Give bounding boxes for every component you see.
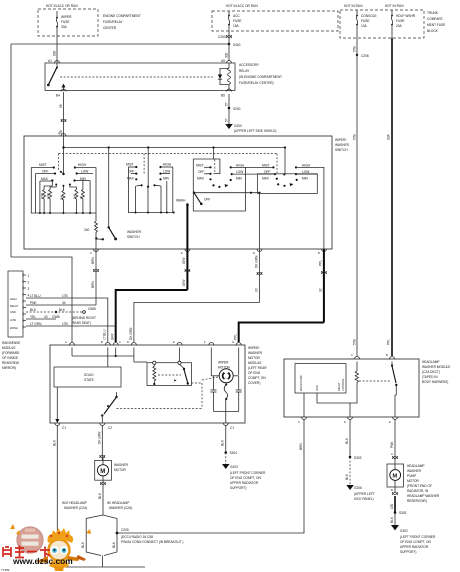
svg-text:MOTOR: MOTOR	[114, 468, 127, 472]
svg-text:PUMP: PUMP	[407, 474, 416, 478]
module dashed control	[117, 377, 219, 409]
headlamp washer pump feed	[390, 420, 398, 462]
svg-text:WIPER/: WIPER/	[335, 138, 346, 142]
svg-text:HDLP WSHR: HDLP WSHR	[396, 14, 416, 18]
svg-text:G: G	[232, 340, 234, 344]
resistor R 33K	[59, 186, 65, 213]
svg-text:HOT IN RUN: HOT IN RUN	[344, 4, 363, 8]
svg-text:FUSE: FUSE	[61, 20, 70, 24]
svg-text:P/N/A4 CONN CONNECT (IN BREAKO: P/N/A4 CONN CONNECT (IN BREAKOUT )	[121, 540, 183, 544]
cluster4 HIGH rail to exit	[295, 163, 324, 249]
svg-text:A5: A5	[221, 59, 225, 63]
svg-text:LOW: LOW	[302, 170, 309, 174]
svg-text:RAINSENSE: RAINSENSE	[2, 341, 20, 345]
headlamp module inner box	[295, 364, 346, 393]
cluster2 MIN contact	[159, 177, 169, 181]
svg-text:COMPT, ON: COMPT, ON	[248, 376, 266, 380]
svg-text:ACCESSORY: ACCESSORY	[239, 63, 260, 67]
svg-text:57: 57	[225, 102, 229, 106]
svg-text:SWITCH: SWITCH	[127, 235, 140, 239]
module relay box	[134, 361, 192, 385]
module right ground	[221, 426, 266, 491]
svg-text:LOW: LOW	[163, 170, 170, 174]
svg-text:REARVIEW: REARVIEW	[2, 361, 19, 365]
svg-text:OF ENG COMPT, ON: OF ENG COMPT, ON	[400, 540, 432, 544]
svg-text:MIST: MIST	[262, 163, 270, 167]
svg-text:30A: 30A	[61, 25, 68, 29]
svg-text:DK GRN: DK GRN	[97, 431, 101, 444]
svg-text:2: 2	[28, 281, 30, 285]
resistor 240 washer	[84, 213, 98, 238]
svg-text:G200: G200	[234, 124, 242, 128]
cluster3 MIN contact	[230, 177, 243, 181]
svg-text:HEADLAMP: HEADLAMP	[407, 464, 425, 468]
svg-text:C260: C260	[218, 35, 226, 39]
motor brush arm	[224, 383, 228, 423]
svg-text:S302: S302	[399, 511, 407, 515]
svg-text:ENGINE COMPARTMENT: ENGINE COMPARTMENT	[103, 14, 141, 18]
svg-text:BRN: BRN	[91, 281, 95, 288]
svg-text:D: D	[253, 251, 255, 255]
svg-text:MIN: MIN	[236, 177, 243, 181]
svg-text:93: 93	[254, 288, 258, 292]
cluster4 OFF rail	[264, 170, 276, 175]
svg-text:SWITCH: SWITCH	[335, 148, 348, 152]
fuse block: I/P dashed box	[212, 4, 338, 31]
wire LT BLU 17B	[26, 294, 108, 342]
svg-text:D: D	[344, 420, 346, 424]
svg-text:FUSE/RELAY CENTER): FUSE/RELAY CENTER)	[239, 81, 274, 85]
svg-text:B: B	[386, 353, 388, 357]
rainsense pin names	[10, 297, 19, 330]
svg-text:MAX: MAX	[197, 177, 205, 181]
svg-text:C: C	[119, 340, 121, 344]
cluster4 center contacts	[277, 183, 293, 187]
svg-text:BLK: BLK	[98, 492, 102, 499]
svg-text:WASHER: WASHER	[335, 143, 350, 147]
watermark chinese text	[3, 546, 50, 558]
svg-text:YEL: YEL	[30, 315, 36, 319]
wire switch to module pin D	[129, 249, 262, 342]
svg-text:MIN: MIN	[302, 177, 309, 181]
svg-text:BLK: BLK	[390, 516, 394, 523]
svg-text:C585: C585	[52, 315, 60, 319]
cluster1 left bracket	[31, 168, 96, 214]
svg-text:C: C	[90, 251, 92, 255]
svg-text:CONSOLE: CONSOLE	[361, 14, 377, 18]
svg-text:WASHER (CZA): WASHER (CZA)	[64, 506, 87, 510]
cluster3 HIGH rail	[230, 163, 274, 168]
svg-text:58: 58	[59, 104, 63, 108]
svg-text:92: 92	[318, 288, 322, 292]
svg-text:WASHER: WASHER	[127, 230, 142, 234]
svg-text:E: E	[389, 420, 391, 424]
washer rail	[194, 192, 261, 194]
svg-text:S303: S303	[354, 456, 362, 460]
svg-text:OFF: OFF	[128, 170, 134, 174]
svg-text:690: 690	[53, 50, 57, 56]
svg-text:S200: S200	[233, 107, 241, 111]
svg-text:OFF: OFF	[198, 170, 204, 174]
wire delay signal to rainsense	[91, 249, 99, 305]
washer switch arm right	[193, 192, 211, 206]
svg-text:B5: B5	[221, 94, 225, 98]
svg-text:20A: 20A	[396, 24, 403, 28]
cluster1 MIN rail	[73, 177, 90, 181]
washer rail drop to exit	[259, 193, 261, 249]
svg-text:WASHER: WASHER	[114, 463, 129, 467]
svg-text:COVER): COVER)	[248, 381, 260, 385]
svg-text:E: E	[181, 251, 183, 255]
svg-text:WASH: WASH	[10, 326, 18, 330]
svg-text:CONTROL: CONTROL	[341, 378, 345, 391]
cluster4 MIN contact	[296, 177, 309, 181]
relay coil	[228, 63, 231, 91]
svg-text:B: B	[318, 251, 320, 255]
headlamp module top pins	[351, 353, 395, 359]
cluster3 center contacts	[212, 184, 228, 188]
svg-text:www.dzsc.com: www.dzsc.com	[12, 556, 73, 566]
svg-text:FUSE: FUSE	[396, 19, 405, 23]
watermark mascot	[10, 524, 91, 571]
svg-text:PNK: PNK	[30, 301, 37, 305]
svg-text:E: E	[173, 340, 175, 344]
svg-text:MODULE: MODULE	[248, 361, 262, 365]
svg-text:GND: GND	[10, 310, 16, 314]
svg-text:3K: 3K	[79, 196, 83, 199]
svg-text:G206: G206	[354, 486, 362, 490]
washer feed below module	[97, 426, 105, 461]
svg-text:(FORWARD: (FORWARD	[2, 351, 20, 355]
svg-text:LOW: LOW	[81, 170, 88, 174]
relay clamp diode	[218, 69, 229, 85]
cluster3 lower rectangle	[193, 167, 245, 211]
cluster2 MAX contact	[127, 177, 137, 181]
svg-text:10K: 10K	[72, 194, 76, 199]
svg-text:SOLID: SOLID	[84, 373, 94, 377]
svg-text:OF INSIDE: OF INSIDE	[2, 356, 18, 360]
relay pin A5	[221, 59, 232, 63]
switch box exit pins	[58, 132, 326, 256]
resistor R 100K	[46, 185, 56, 213]
svg-text:BLK: BLK	[30, 308, 37, 312]
headlamp relay switch	[391, 362, 398, 418]
wire fuse to relay A1	[53, 36, 58, 63]
svg-text:RESERVOIR): RESERVOIR)	[407, 499, 427, 503]
rainsense pin stubs	[23, 273, 30, 329]
svg-text:S400: S400	[233, 43, 241, 47]
ladder bottom rail dots	[39, 212, 91, 214]
motor left branch with capacitor	[211, 360, 220, 412]
wire washer feed to module	[111, 249, 190, 342]
svg-text:G203: G203	[230, 465, 238, 469]
svg-text:DK GRN: DK GRN	[254, 255, 258, 268]
svg-text:C2: C2	[108, 426, 112, 430]
svg-text:RELAY: RELAY	[239, 69, 250, 73]
solid state box	[54, 367, 121, 387]
svg-text:BLK: BLK	[59, 308, 66, 312]
module relay coil	[153, 364, 156, 385]
svg-text:SUPPORT): SUPPORT)	[400, 550, 416, 554]
svg-text:FUSE: FUSE	[233, 19, 242, 23]
svg-text:300: 300	[225, 52, 229, 58]
headlamp washer pump motor	[387, 461, 440, 503]
cluster2 MIST rail	[126, 163, 137, 169]
svg-text:MOTOR: MOTOR	[407, 479, 420, 483]
svg-text:MODULE: MODULE	[2, 346, 16, 350]
svg-text:77459: 77459	[1, 568, 10, 572]
svg-text:HOT IN ACC OR RUN: HOT IN ACC OR RUN	[226, 4, 258, 8]
wiper/washer switch box	[24, 136, 350, 249]
ground run from solid state	[52, 426, 145, 568]
cluster2 risers and bottom rail	[128, 167, 174, 214]
washer motor ground split	[62, 482, 132, 567]
relay switch arm	[47, 63, 58, 86]
svg-text:PPL: PPL	[387, 339, 391, 345]
svg-text:1: 1	[28, 274, 30, 278]
svg-text:GRY: GRY	[111, 332, 115, 340]
cluster1 LOW rail	[76, 170, 93, 175]
headlamp relay coil	[317, 362, 359, 418]
svg-text:BLK: BLK	[221, 439, 225, 446]
svg-text:MIN: MIN	[163, 177, 170, 181]
svg-text:A: A	[351, 353, 353, 357]
svg-text:WIPER: WIPER	[218, 361, 229, 365]
cluster3 OFF rail	[198, 170, 212, 175]
svg-text:(UPPER LEFT SIDE SHIELD): (UPPER LEFT SIDE SHIELD)	[234, 129, 276, 133]
resistor ladder contacts	[51, 180, 75, 187]
svg-text:BLOCK: BLOCK	[427, 29, 439, 33]
wiper motor module box	[50, 345, 267, 423]
svg-text:3: 3	[28, 287, 30, 291]
svg-text:KICK PANEL): KICK PANEL)	[354, 497, 374, 501]
svg-text:UPPER RADIATOR: UPPER RADIATOR	[230, 481, 259, 485]
svg-text:RELAY: RELAY	[337, 382, 341, 391]
module internal wires top	[72, 348, 239, 376]
rainsense module box	[2, 271, 23, 370]
svg-text:LT BLU: LT BLU	[30, 294, 41, 298]
svg-text:RADIATOR, IN: RADIATOR, IN	[407, 489, 429, 493]
wire relay B4 to switch feed	[59, 92, 66, 136]
svg-text:ACC: ACC	[233, 14, 240, 18]
svg-text:B: B	[391, 488, 393, 492]
module relay contacts	[158, 364, 189, 384]
relay pin A1	[48, 59, 60, 63]
accessory relay box	[45, 63, 282, 91]
svg-text:REAR SEAT): REAR SEAT)	[72, 321, 91, 325]
fuse MODULATOR 20A	[391, 10, 416, 38]
svg-text:OFF: OFF	[264, 170, 270, 174]
wire PNK 34	[26, 301, 96, 305]
svg-text:270K: 270K	[40, 193, 44, 199]
wire BLK 150 dashed	[26, 307, 96, 325]
svg-text:C1: C1	[62, 426, 66, 430]
cluster3 MIST rail	[196, 163, 212, 168]
svg-text:WIPER: WIPER	[61, 15, 72, 19]
dashed linkage bus	[59, 154, 278, 174]
svg-text:MIST: MIST	[39, 163, 47, 167]
wire YEL 43	[26, 315, 60, 319]
cluster4 rect	[257, 174, 317, 194]
wash pump output	[303, 393, 305, 417]
svg-text:17B: 17B	[62, 322, 68, 326]
fuse CONSOLE 10A	[356, 10, 376, 38]
svg-text:WASHER (CZA): WASHER (CZA)	[109, 506, 132, 510]
wire to module pin A	[11, 257, 72, 342]
svg-text:MAX: MAX	[41, 177, 49, 181]
svg-text:A: A	[58, 132, 60, 136]
module bottom switch	[101, 392, 118, 423]
cluster4 MAX contact	[262, 177, 278, 181]
cluster3 MAX contact	[197, 177, 212, 181]
svg-text:57: 57	[225, 118, 229, 122]
svg-text:C1: C1	[230, 426, 234, 430]
svg-text:150: 150	[390, 503, 394, 509]
headlamp module relay gnd	[345, 420, 375, 502]
svg-text:A: A	[65, 340, 67, 344]
svg-text:MIST: MIST	[126, 163, 134, 167]
fuse block: trunk compartment	[340, 4, 445, 38]
wire B5 to S200	[225, 94, 230, 108]
svg-text:W/O HEADLAMP: W/O HEADLAMP	[62, 501, 87, 505]
svg-text:BLK: BLK	[345, 473, 349, 480]
svg-text:C206: C206	[361, 54, 369, 58]
module bottom pins	[55, 423, 235, 430]
svg-text:43: 43	[44, 315, 48, 319]
headlamp washer module box	[284, 359, 450, 417]
cluster1 MAX rail	[40, 177, 54, 181]
svg-text:57B: 57B	[353, 46, 357, 52]
svg-text:34: 34	[62, 301, 66, 305]
svg-text:(TAPED IN: (TAPED IN	[422, 375, 438, 379]
svg-text:HEADLAMP: HEADLAMP	[422, 360, 440, 364]
washer switch arm left	[95, 146, 141, 240]
svg-text:PPL: PPL	[318, 260, 322, 266]
svg-text:LT GRN: LT GRN	[30, 322, 42, 326]
relay dashed control line	[60, 76, 213, 78]
svg-text:MIRROR): MIRROR)	[2, 366, 16, 370]
pump motor ground	[390, 488, 436, 554]
motor right branch with capacitor	[214, 376, 242, 412]
svg-text:BRN: BRN	[91, 257, 95, 264]
svg-text:BLK: BLK	[52, 439, 56, 446]
svg-text:SUPPORT): SUPPORT)	[230, 486, 246, 490]
wire modulator fuse down	[387, 38, 393, 356]
svg-text:M: M	[393, 474, 398, 480]
cluster4 MIST rail	[262, 163, 275, 168]
svg-text:(FRONT END OF: (FRONT END OF	[407, 484, 432, 488]
headlamp module bottom pins	[298, 417, 398, 424]
headlamp relay dashed link	[359, 380, 391, 382]
svg-text:OFF: OFF	[204, 198, 210, 202]
svg-text:(UPPER LEFT: (UPPER LEFT	[354, 492, 375, 496]
washer motor	[95, 457, 129, 486]
svg-text:CENTER: CENTER	[103, 26, 117, 30]
svg-text:GND: GND	[315, 385, 319, 391]
washer WASH contact	[176, 199, 189, 206]
svg-text:HIGH: HIGH	[302, 163, 311, 167]
svg-text:WASH: WASH	[176, 199, 186, 203]
svg-text:DELAY: DELAY	[10, 304, 19, 308]
svg-text:G302: G302	[400, 529, 408, 533]
wash feed drop	[186, 205, 188, 249]
resistor R 3K	[79, 181, 85, 213]
relay contact B4	[56, 84, 66, 98]
wiper motor symbol	[218, 361, 233, 383]
watermark red circle logo	[17, 527, 43, 553]
svg-text:HOT IN ACC OR RUN: HOT IN ACC OR RUN	[46, 4, 78, 8]
splice C205	[116, 528, 184, 544]
svg-text:GRY: GRY	[182, 278, 186, 286]
svg-text:(CZA DECT): (CZA DECT)	[422, 370, 440, 374]
svg-text:(LEFT FRONT CORNER: (LEFT FRONT CORNER	[230, 471, 266, 475]
svg-text:D: D	[127, 340, 129, 344]
cluster1 OFF rail	[36, 170, 57, 175]
svg-text:(LEFT FRONT CORNER: (LEFT FRONT CORNER	[400, 535, 436, 539]
cluster2 LOW rail	[159, 170, 170, 175]
resistor R 10K	[70, 185, 78, 213]
svg-text:240: 240	[84, 228, 90, 232]
svg-text:33K: 33K	[59, 195, 63, 200]
wire left edge down	[10, 44, 12, 257]
svg-text:WASH PUMP: WASH PUMP	[299, 375, 303, 391]
svg-text:HIGH: HIGH	[163, 163, 172, 167]
cluster2 OFF rail	[128, 170, 137, 175]
svg-text:GRY: GRY	[182, 256, 186, 264]
svg-text:MAX: MAX	[262, 177, 270, 181]
svg-text:WASHER: WASHER	[407, 469, 422, 473]
svg-text:10A: 10A	[361, 24, 368, 28]
svg-text:B: B	[101, 340, 103, 344]
cluster1 right bracket	[90, 168, 96, 214]
svg-text:BLK: BLK	[112, 541, 116, 548]
cluster1 HIGH rail	[74, 163, 96, 169]
connector C206	[353, 38, 369, 58]
svg-text:M: M	[100, 469, 105, 475]
svg-text:OF ENG COMPT, ON: OF ENG COMPT, ON	[230, 476, 262, 480]
svg-text:MIST: MIST	[196, 163, 204, 167]
resistor R 270K	[40, 181, 52, 213]
svg-text:C585: C585	[88, 307, 96, 311]
svg-text:DK GRN: DK GRN	[129, 327, 133, 340]
svg-text:BLK: BLK	[81, 541, 85, 548]
svg-text:HEADLAMP WASHER: HEADLAMP WASHER	[407, 494, 440, 498]
svg-text:BODY HARNESS): BODY HARNESS)	[422, 380, 448, 384]
svg-text:BRN: BRN	[299, 443, 303, 450]
solid state output arrow	[55, 387, 59, 423]
svg-text:17B: 17B	[62, 294, 68, 298]
wire S400 to relay A5	[225, 44, 230, 61]
svg-text:MOTOR: MOTOR	[248, 356, 261, 360]
module top pins	[65, 340, 241, 345]
svg-text:UPPER RADIATOR: UPPER RADIATOR	[400, 545, 429, 549]
feed wire into cluster 1 wiper	[60, 136, 65, 175]
svg-text:WASHER: WASHER	[248, 351, 263, 355]
svg-text:LOW: LOW	[10, 318, 16, 322]
svg-text:PPL: PPL	[234, 334, 238, 340]
cluster2 HIGH rail	[159, 163, 172, 169]
svg-text:HIGH: HIGH	[10, 297, 17, 301]
wire console fuse down	[353, 55, 358, 356]
svg-text:FUSE: FUSE	[361, 19, 370, 23]
splice S200	[228, 107, 241, 111]
headlamp module gnd pin wire	[299, 420, 304, 451]
svg-text:HIGH: HIGH	[78, 163, 87, 167]
fuse WIPER 30A	[56, 11, 72, 36]
svg-text:LT BLU: LT BLU	[103, 329, 107, 340]
svg-text:A: A	[391, 452, 393, 456]
relay pin B5	[221, 89, 232, 97]
